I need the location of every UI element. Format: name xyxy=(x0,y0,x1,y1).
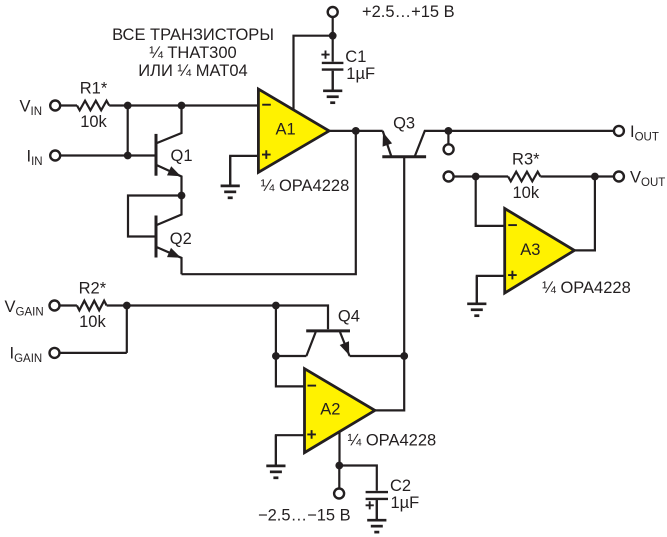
svg-text:VGAIN: VGAIN xyxy=(5,298,44,319)
wire A2 V- pin down xyxy=(338,431,340,465)
wire C2 to ground xyxy=(376,500,378,520)
node Q1 emitter / Q2 collector xyxy=(178,192,186,200)
svg-text:C1: C1 xyxy=(345,48,366,66)
wire I_IN to Q1 base xyxy=(60,154,154,156)
svg-text:¼ OPA4228: ¼ OPA4228 xyxy=(261,177,350,195)
node A2 inverting junction top xyxy=(272,302,280,310)
ground at A3 + input xyxy=(467,276,486,316)
svg-text:A2: A2 xyxy=(320,400,340,418)
node A3 inverting junction xyxy=(472,173,480,181)
wire A3 noninverting input to ground xyxy=(477,276,505,304)
wire A1 noninverting input to ground xyxy=(230,156,258,186)
terminal -V supply xyxy=(334,489,344,499)
terminal V_GAIN xyxy=(50,301,60,311)
terminal V_OUT xyxy=(614,172,624,182)
ground below C2 xyxy=(367,500,386,532)
capacitor C2 xyxy=(366,492,388,499)
wire A1 output down to Q2 emitter xyxy=(182,131,356,274)
svg-text:VOUT: VOUT xyxy=(630,169,665,190)
node V_IN/I_IN junction xyxy=(124,102,132,110)
wire junction down to I_IN line xyxy=(127,106,129,156)
transistor Q3 body xyxy=(382,131,448,157)
wire R1 to A1 inverting input xyxy=(109,104,258,106)
svg-text:A3: A3 xyxy=(520,241,540,259)
plus input mark A1 xyxy=(262,150,271,159)
terminal I_GAIN xyxy=(50,348,60,358)
svg-text:IGAIN: IGAIN xyxy=(10,345,43,366)
svg-text:VIN: VIN xyxy=(20,97,43,118)
wire A2 noninverting input to ground xyxy=(276,435,305,466)
svg-text:1µF: 1µF xyxy=(391,494,420,512)
node -V junction xyxy=(335,462,343,470)
resistor R2 xyxy=(77,301,107,311)
resistor R3 xyxy=(508,172,540,182)
terminal link lower xyxy=(444,172,454,182)
node Q1 collector junction xyxy=(178,102,186,110)
transistor Q1 body xyxy=(156,106,182,196)
minus input mark A1 xyxy=(262,104,271,106)
node A3 output junction xyxy=(591,173,599,181)
ground below C1 xyxy=(323,71,342,103)
node Q4 collector junction xyxy=(272,352,280,360)
minus input mark A3 xyxy=(508,224,517,226)
wire to I_OUT terminal xyxy=(448,130,613,132)
resistor R1 xyxy=(77,101,109,111)
wire C1 to ground xyxy=(332,71,334,91)
wire +V to A1 V+ pin xyxy=(294,36,333,110)
wire V_GAIN to R2 xyxy=(60,304,77,306)
wire A3 output up to V_OUT line xyxy=(574,177,595,251)
node A1 output junction xyxy=(352,127,360,135)
terminal V_IN xyxy=(50,101,60,111)
polarity + of C2 xyxy=(366,501,374,509)
capacitor C1 xyxy=(322,63,344,70)
wire R2 to Q4 base lead xyxy=(107,306,328,330)
wire -V junction to C2 xyxy=(339,466,377,491)
wire Q4 collector to left junction xyxy=(276,355,307,357)
op-amp A3 xyxy=(505,209,575,294)
svg-text:R1*: R1* xyxy=(80,80,108,98)
node I_OUT junction xyxy=(445,127,453,135)
svg-text:C2: C2 xyxy=(390,477,411,495)
svg-text:¼ OPA4228: ¼ OPA4228 xyxy=(542,279,631,297)
wire left junction down to A2 inverting input xyxy=(276,306,305,387)
wire -V junction to terminal xyxy=(338,466,340,489)
plus input mark A3 xyxy=(508,271,517,280)
op-amp A1 xyxy=(258,89,329,172)
wire junction down to I_GAIN line xyxy=(126,306,128,353)
arrowhead Q4 emitter xyxy=(340,341,350,355)
wire +V stem to junction xyxy=(332,17,334,36)
wire I_GAIN to junction xyxy=(60,352,127,354)
svg-text:IIN: IIN xyxy=(27,147,43,168)
wire Q3 base down to A2 output xyxy=(403,157,405,356)
svg-text:Q1: Q1 xyxy=(171,147,193,165)
svg-text:Q2: Q2 xyxy=(170,230,192,248)
terminal +V supply xyxy=(328,7,338,17)
svg-text:10k: 10k xyxy=(80,113,107,131)
wire A1 output xyxy=(329,130,383,132)
svg-text:IOUT: IOUT xyxy=(630,123,659,144)
wire junction down to A3 inverting input xyxy=(476,177,505,226)
svg-text:R2*: R2* xyxy=(79,280,107,298)
svg-text:A1: A1 xyxy=(276,120,296,138)
arrowhead Q1 emitter xyxy=(167,166,181,176)
polarity + of C1 xyxy=(321,51,329,59)
wire Q4 emitter to right junction xyxy=(350,355,405,357)
wire A2 output up xyxy=(375,356,404,410)
svg-text:−2.5…−15 В: −2.5…−15 В xyxy=(258,507,351,525)
plus input mark A2 xyxy=(307,430,316,439)
terminal I_OUT xyxy=(614,126,624,136)
arrowhead Q2 emitter xyxy=(167,248,181,258)
svg-text:ВСЕ ТРАНЗИСТОРЫ: ВСЕ ТРАНЗИСТОРЫ xyxy=(112,26,274,44)
svg-text:1µF: 1µF xyxy=(346,65,375,83)
wire link to R3 xyxy=(454,175,508,177)
node +V junction xyxy=(329,32,337,40)
svg-text:+2.5…+15 В: +2.5…+15 В xyxy=(362,3,455,21)
transistor Q4 body xyxy=(306,331,350,356)
terminal I_IN xyxy=(50,151,60,161)
terminal link upper xyxy=(444,144,454,154)
svg-text:Q4: Q4 xyxy=(338,307,360,325)
wire stub to link point xyxy=(447,131,449,144)
ground at A1 + input xyxy=(221,156,240,198)
transistor Q2 body xyxy=(156,196,182,275)
wire +V junction to C1 xyxy=(332,36,334,62)
svg-text:10k: 10k xyxy=(512,184,539,202)
svg-text:10k: 10k xyxy=(79,313,106,331)
ground at A2 + input xyxy=(266,435,285,478)
node V_GAIN/I_GAIN junction xyxy=(123,302,131,310)
svg-text:¼ OPA4228: ¼ OPA4228 xyxy=(348,432,437,450)
svg-text:R3*: R3* xyxy=(512,151,540,169)
wire V_IN to R1 xyxy=(60,104,77,106)
svg-text:Q3: Q3 xyxy=(393,114,415,132)
op-amp A2 xyxy=(305,369,375,453)
wire Q2 base to collector loop xyxy=(128,196,182,237)
wire R3 to V_OUT terminal xyxy=(540,175,613,177)
arrowhead Q3 emitter xyxy=(383,132,393,146)
svg-text:ИЛИ ¼ MAT04: ИЛИ ¼ MAT04 xyxy=(138,62,247,80)
svg-text:¼ THAT300: ¼ THAT300 xyxy=(149,44,236,62)
node I_IN junction xyxy=(124,152,132,160)
minus input mark A2 xyxy=(308,385,317,387)
node Q4 emitter junction xyxy=(400,352,408,360)
